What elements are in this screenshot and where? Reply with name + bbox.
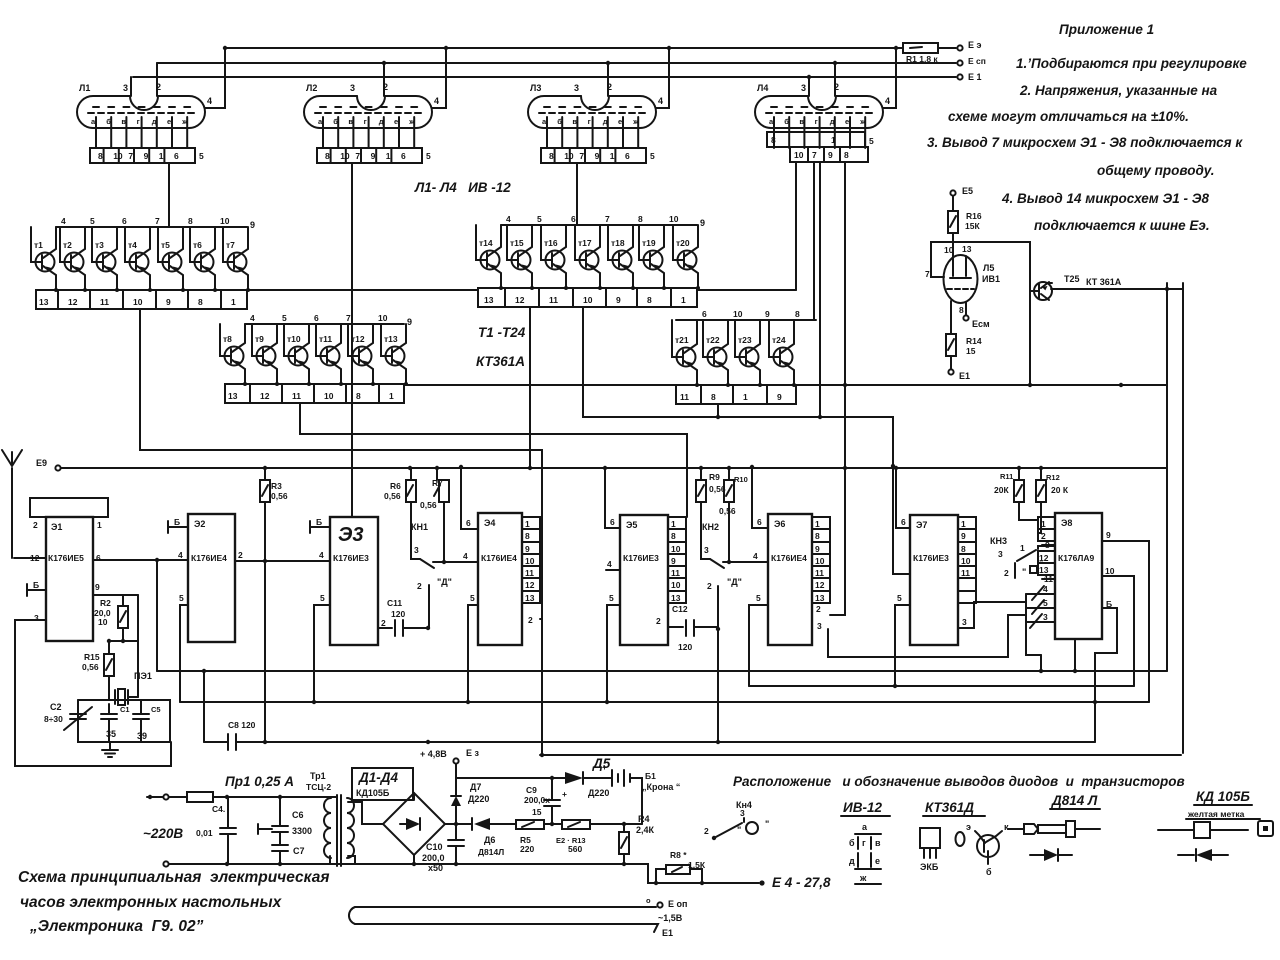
svg-text:10: 10	[1105, 566, 1115, 576]
svg-text:5: 5	[282, 313, 287, 323]
svg-text:9: 9	[95, 582, 100, 592]
bus y671	[157, 670, 1167, 672]
svg-text:1: 1	[231, 297, 236, 307]
svg-text:6: 6	[757, 517, 762, 527]
svg-text:т9: т9	[255, 334, 264, 344]
svg-text:Е 4 - 27,8: Е 4 - 27,8	[772, 875, 831, 890]
svg-text:1: 1	[97, 520, 102, 530]
svg-text:5: 5	[897, 593, 902, 603]
wire L4 pin3 riser	[808, 77, 810, 96]
svg-text:6: 6	[466, 518, 471, 528]
svg-text:4: 4	[607, 559, 612, 569]
svg-text:1: 1	[815, 519, 820, 529]
svg-text:3: 3	[998, 549, 1003, 559]
resistor R12	[1040, 468, 1042, 480]
svg-text:г: г	[137, 117, 140, 126]
wire L2 box down to Э3	[351, 163, 353, 517]
antenna	[2, 450, 22, 558]
svg-text:Е1: Е1	[662, 928, 673, 938]
bus y385	[404, 384, 676, 386]
wire Э8 pin6	[1095, 608, 1117, 742]
wire L4 pin4 riser	[883, 48, 896, 108]
ground tick pin 6 of Э3	[310, 521, 330, 533]
svg-text:3: 3	[817, 621, 822, 631]
tube Л5 IV-1	[944, 255, 978, 303]
svg-text:R10: R10	[734, 475, 748, 484]
svg-text:2: 2	[816, 604, 821, 614]
svg-text:8: 8	[98, 151, 103, 161]
svg-text:Б: Б	[1106, 599, 1112, 609]
transistor Т11	[316, 324, 343, 386]
transistor Т10	[284, 324, 311, 386]
transistor T25	[1034, 282, 1052, 300]
legend diode symbol right	[1030, 854, 1044, 856]
svg-text:4: 4	[434, 96, 439, 106]
svg-text:4: 4	[463, 551, 468, 561]
wire Э4 pin5	[468, 605, 478, 702]
svg-text:8: 8	[549, 151, 554, 161]
heater loop 1.5V	[355, 906, 656, 908]
svg-text:7: 7	[812, 150, 817, 160]
svg-text:9: 9	[1106, 530, 1111, 540]
svg-text:Д814Л: Д814Л	[478, 847, 504, 857]
transistor Т5	[158, 227, 185, 292]
terminal E1 low	[948, 369, 953, 374]
resistor R16	[952, 196, 954, 211]
svg-text:т22: т22	[706, 335, 720, 345]
wire L3 box to T14-T20 rail	[576, 163, 578, 225]
svg-text:5: 5	[537, 214, 542, 224]
svg-text:Е5: Е5	[962, 186, 973, 196]
svg-text:12: 12	[815, 580, 825, 590]
svg-text:Д220: Д220	[588, 788, 609, 798]
svg-text:5: 5	[199, 151, 204, 161]
svg-text:Л3: Л3	[530, 83, 541, 93]
svg-text:~220В: ~220В	[143, 826, 183, 841]
svg-text:4: 4	[506, 214, 511, 224]
svg-text:13: 13	[962, 244, 972, 254]
svg-text:С4.: С4.	[212, 804, 225, 814]
svg-text:2: 2	[417, 581, 422, 591]
wire L4 box riser b	[813, 162, 815, 320]
svg-text:7: 7	[605, 214, 610, 224]
ground tick pin 6 of Э2	[168, 521, 188, 533]
bus y290 between transistor blocks	[247, 289, 478, 291]
oscillator cap box	[78, 700, 170, 742]
svg-text:К176ИЕ3: К176ИЕ3	[333, 553, 369, 563]
svg-text:Э7: Э7	[916, 520, 927, 530]
svg-text:общему проводу.: общему проводу.	[1097, 163, 1215, 178]
svg-text:т11: т11	[319, 334, 332, 344]
svg-text:10: 10	[98, 617, 108, 627]
svg-text:10: 10	[525, 556, 535, 566]
wire bus1 Ea	[225, 47, 956, 49]
svg-text:3: 3	[962, 617, 967, 627]
svg-text:Е сп: Е сп	[968, 56, 986, 66]
svg-text:8: 8	[961, 544, 966, 554]
transistor Т15	[507, 225, 534, 290]
svg-text:10: 10	[671, 580, 681, 590]
wire Э6 pin5	[749, 605, 768, 686]
svg-text:ПЭ1: ПЭ1	[134, 671, 152, 681]
terminal E4	[759, 880, 764, 885]
svg-text:6: 6	[702, 309, 707, 319]
svg-text:в: в	[348, 117, 353, 126]
svg-text:8: 8	[638, 214, 643, 224]
svg-text:1: 1	[961, 519, 966, 529]
terminal mains bottom	[163, 861, 168, 866]
svg-text:Есм: Есм	[972, 319, 990, 329]
svg-text:э: э	[966, 822, 971, 832]
svg-text:1: 1	[671, 519, 676, 529]
svg-text:Д1-Д4: Д1-Д4	[358, 770, 399, 785]
transistor Т9	[252, 324, 279, 386]
svg-text:г: г	[815, 117, 818, 126]
svg-text:т2: т2	[63, 240, 72, 250]
resistor R8	[666, 865, 690, 874]
svg-text:120: 120	[678, 642, 692, 652]
svg-text:9: 9	[828, 150, 833, 160]
transistor Т23	[735, 320, 762, 387]
svg-text:~1,5В: ~1,5В	[658, 913, 683, 923]
svg-text:4: 4	[250, 313, 255, 323]
transistor Т20	[673, 225, 700, 290]
svg-text:5: 5	[470, 593, 475, 603]
svg-text:9: 9	[616, 295, 621, 305]
svg-text:д: д	[603, 117, 608, 126]
svg-text:Пр1 0,25 А: Пр1 0,25 А	[225, 774, 294, 789]
tube L4 pin boxes	[767, 132, 874, 162]
svg-text:2. Напряжения, указанные на: 2. Напряжения, указанные на	[1019, 83, 1218, 98]
svg-text:е: е	[845, 117, 849, 126]
svg-text:4. Вывод 14 микросхем Э1 - Э8: 4. Вывод 14 микросхем Э1 - Э8	[1001, 191, 1209, 206]
svg-text:Э2: Э2	[194, 519, 205, 529]
terminal Ecm	[957, 60, 962, 65]
svg-text:д: д	[849, 856, 855, 866]
svg-text:+: +	[602, 762, 607, 772]
svg-text:5: 5	[90, 216, 95, 226]
wire Э7 pin5	[895, 605, 910, 686]
wire block2 loop to Э5	[300, 403, 687, 517]
svg-text:3300: 3300	[292, 826, 312, 836]
svg-text:4: 4	[319, 550, 324, 560]
transistor block Т14-Т20	[476, 214, 705, 307]
IC Э2 К176ИЕ4	[188, 514, 235, 642]
wire Э1 pin5 loop	[15, 620, 171, 766]
svg-text:+ 4,8В: + 4,8В	[420, 749, 447, 759]
svg-text:1: 1	[743, 392, 748, 402]
svg-text:3: 3	[1043, 612, 1048, 622]
svg-text:9: 9	[407, 317, 412, 327]
wire bus2 Ecm	[157, 62, 956, 64]
svg-text:„Электроника Г9. 02”: „Электроника Г9. 02”	[29, 918, 204, 935]
svg-text:КД 105Б: КД 105Б	[1196, 789, 1250, 804]
wire L1 pin3 to bus3	[130, 77, 132, 96]
svg-text:ИВ1: ИВ1	[982, 274, 1000, 284]
wire Э1 pin6 to Э2 pin4	[93, 559, 188, 561]
wire Э4 pin6 to E9	[461, 467, 478, 529]
bridge rectifier	[383, 793, 445, 855]
transistor Т16	[541, 225, 568, 290]
resistor R14	[950, 301, 952, 334]
svg-text:т21: т21	[675, 335, 689, 345]
svg-text:9: 9	[700, 218, 705, 228]
resistor R15	[108, 641, 110, 654]
capacitor C8	[203, 671, 205, 742]
wire	[544, 823, 562, 825]
svg-text:3: 3	[574, 83, 579, 93]
svg-text:220: 220	[520, 844, 534, 854]
svg-text:6: 6	[96, 553, 101, 563]
svg-text:в: в	[572, 117, 577, 126]
Э8 lower-left pins	[1026, 593, 1055, 595]
svg-text:9: 9	[525, 544, 530, 554]
wire R10 to Э6 pin4	[723, 561, 768, 563]
svg-text:8: 8	[671, 531, 676, 541]
wire L4 pin2 riser	[834, 63, 836, 96]
svg-text:т7: т7	[226, 240, 235, 250]
resistor R11	[1018, 468, 1020, 480]
pin cell stack	[668, 517, 686, 603]
Э8 left cells	[1038, 517, 1055, 541]
svg-text:С2: С2	[50, 702, 62, 712]
transistor block Т8-Т13	[220, 313, 412, 403]
svg-text:10: 10	[583, 295, 593, 305]
svg-text:в: в	[799, 117, 804, 126]
svg-text:К176ИЕ4: К176ИЕ4	[191, 553, 227, 563]
wire KH1/R7 to Э4 pin4	[433, 561, 478, 563]
svg-text:С12: С12	[672, 604, 688, 614]
svg-text:7: 7	[155, 216, 160, 226]
svg-text:б: б	[849, 838, 855, 848]
svg-text:11: 11	[671, 568, 680, 578]
svg-text:8: 8	[647, 295, 652, 305]
wire riser x1183	[1182, 283, 1184, 753]
svg-text:2: 2	[607, 82, 612, 92]
svg-text:10: 10	[944, 245, 954, 255]
svg-text:9: 9	[144, 151, 149, 161]
svg-text:12: 12	[68, 297, 78, 307]
svg-text:т5: т5	[161, 240, 170, 250]
svg-text:6: 6	[314, 313, 319, 323]
svg-text:9: 9	[250, 220, 255, 230]
svg-text:R6: R6	[390, 481, 401, 491]
svg-text:11: 11	[961, 568, 970, 578]
bottom rail	[169, 863, 624, 865]
svg-text:Д814 Л: Д814 Л	[1051, 793, 1098, 808]
svg-text:0,56: 0,56	[719, 506, 736, 516]
svg-text:Л4: Л4	[757, 83, 768, 93]
svg-text:в: в	[121, 117, 126, 126]
svg-text:5: 5	[650, 151, 655, 161]
wire riser T25 right	[1166, 283, 1168, 671]
svg-text:13: 13	[228, 391, 238, 401]
svg-text:Б1: Б1	[645, 771, 656, 781]
svg-text:б: б	[106, 117, 111, 126]
svg-text:т3: т3	[95, 240, 104, 250]
transistor Т19	[639, 225, 666, 290]
svg-text:желтая метка: желтая метка	[1187, 809, 1245, 819]
svg-text:о: о	[646, 896, 651, 905]
svg-text:7: 7	[579, 151, 584, 161]
svg-text:Т1 -Т24: Т1 -Т24	[478, 325, 526, 340]
svg-text:2: 2	[707, 581, 712, 591]
wire block4 to y417	[717, 404, 719, 417]
wire Э1 pin12	[14, 557, 46, 559]
svg-text:т12: т12	[351, 334, 365, 344]
svg-text:11: 11	[292, 391, 301, 401]
resistor R5	[516, 820, 544, 829]
svg-text:10: 10	[220, 216, 230, 226]
vacuum tube Л4 (IV-12)	[755, 82, 890, 148]
svg-text:10: 10	[815, 556, 825, 566]
svg-text:2: 2	[383, 82, 388, 92]
svg-text:12: 12	[525, 580, 535, 590]
svg-text:Е1: Е1	[959, 371, 970, 381]
svg-text:КН1: КН1	[411, 522, 428, 532]
svg-text:г: г	[364, 117, 367, 126]
svg-text:Тр1: Тр1	[310, 771, 326, 781]
svg-text:5: 5	[179, 593, 184, 603]
legend diode symbol left	[1178, 854, 1194, 856]
svg-text:6: 6	[610, 517, 615, 527]
svg-text:8: 8	[711, 392, 716, 402]
svg-text:9: 9	[595, 151, 600, 161]
transistor Т1	[31, 227, 58, 292]
svg-text:13: 13	[671, 593, 681, 603]
svg-text:5: 5	[1043, 598, 1048, 608]
svg-text:9: 9	[961, 531, 966, 541]
svg-text:6: 6	[401, 151, 406, 161]
svg-text:9: 9	[765, 309, 770, 319]
svg-text:3: 3	[740, 808, 745, 818]
svg-text:т13: т13	[384, 334, 398, 344]
svg-text:т17: т17	[578, 238, 592, 248]
IC Э1 К176ИЕ5	[27, 498, 108, 641]
svg-text:ТСЦ-2: ТСЦ-2	[306, 782, 331, 792]
svg-text:R14: R14	[966, 336, 982, 346]
wire Л5 pin7 loop	[931, 242, 1030, 385]
resistor R6	[410, 468, 412, 480]
pin cell stack	[522, 517, 540, 603]
svg-text:13: 13	[1039, 565, 1049, 575]
svg-text:10: 10	[324, 391, 334, 401]
wire Э1 pin6 feedback drop	[156, 560, 158, 671]
bus y753	[540, 754, 1181, 756]
wire Э8 bottom drop	[1074, 639, 1076, 671]
svg-text:К176ИЕ5: К176ИЕ5	[48, 553, 84, 563]
svg-text:7: 7	[346, 313, 351, 323]
svg-text:5: 5	[426, 151, 431, 161]
svg-text:9: 9	[371, 151, 376, 161]
svg-text:е: е	[167, 117, 171, 126]
svg-text:1: 1	[1041, 519, 1046, 529]
svg-text:Л2: Л2	[306, 83, 317, 93]
svg-text:12: 12	[515, 295, 525, 305]
svg-text:ж: ж	[632, 117, 639, 126]
svg-text:6: 6	[625, 151, 630, 161]
svg-text:3. Вывод 7 микросхем Э1 - Э8 п: 3. Вывод 7 микросхем Э1 - Э8 подключаетс…	[927, 135, 1243, 150]
svg-text:Э3: Э3	[338, 524, 364, 546]
svg-text:9: 9	[671, 556, 676, 566]
svg-text:R9: R9	[709, 472, 720, 482]
wire L2 pin2 riser	[383, 63, 385, 96]
IC Э8 К176ЛА9	[1055, 513, 1102, 639]
vacuum tube Л2 (IV-12)	[304, 82, 439, 163]
capacitor C1	[101, 714, 117, 719]
svg-text:КН2: КН2	[702, 522, 719, 532]
terminal Ea	[957, 45, 962, 50]
svg-text:6: 6	[174, 151, 179, 161]
wire Л5 pin8 to Ecm	[965, 302, 967, 315]
svg-text:в: в	[875, 838, 881, 848]
wire Э6 pin3 to Э8	[828, 615, 1026, 657]
svg-text:ж: ж	[181, 117, 188, 126]
terminal mains top	[163, 794, 168, 799]
svg-text:200,0х: 200,0х	[524, 795, 550, 805]
svg-text:т24: т24	[772, 335, 786, 345]
svg-text:2,4К: 2,4К	[636, 825, 655, 835]
svg-text:2: 2	[1041, 531, 1046, 541]
transistor Т24	[769, 320, 796, 387]
IC Э6 К176ИЕ4	[768, 514, 812, 645]
svg-text:К176ИЕ4: К176ИЕ4	[481, 553, 517, 563]
svg-text:2: 2	[381, 618, 386, 628]
svg-text:С9: С9	[526, 785, 537, 795]
svg-text:2: 2	[1004, 568, 1009, 578]
svg-text:8: 8	[188, 216, 193, 226]
svg-text:Д7: Д7	[470, 782, 481, 792]
svg-text:8: 8	[356, 391, 361, 401]
svg-text:+: +	[562, 789, 567, 799]
svg-text:С8 120: С8 120	[228, 720, 256, 730]
svg-text:Э1: Э1	[51, 522, 62, 532]
wire R3 node drop	[264, 561, 266, 742]
IC Э3 К176ИЕ3	[330, 517, 378, 645]
svg-text:К176ЛА9: К176ЛА9	[1058, 553, 1094, 563]
svg-text:1: 1	[386, 151, 391, 161]
svg-text:КТ361А: КТ361А	[476, 354, 525, 369]
svg-text:8: 8	[795, 309, 800, 319]
svg-text:6: 6	[571, 214, 576, 224]
svg-text:3: 3	[350, 83, 355, 93]
svg-text:12: 12	[1039, 553, 1049, 563]
svg-text:2: 2	[33, 520, 38, 530]
bridge label box Д1-Д4	[352, 768, 413, 800]
svg-text:2: 2	[238, 550, 243, 560]
svg-text:Э4: Э4	[484, 518, 495, 528]
svg-text:„Крона “: „Крона “	[642, 782, 680, 792]
svg-text:11: 11	[680, 392, 689, 402]
svg-text:Е з: Е з	[466, 748, 480, 758]
svg-text:1: 1	[525, 519, 530, 529]
svg-text:R11: R11	[1000, 472, 1013, 481]
svg-text:к: к	[1004, 822, 1009, 832]
svg-text:10: 10	[378, 313, 388, 323]
transistor Т2	[60, 227, 87, 292]
svg-text:11: 11	[525, 568, 534, 578]
svg-text:Б: Б	[174, 517, 180, 527]
IC Э5 К176ИЕ3	[620, 515, 668, 645]
svg-text:4: 4	[178, 550, 183, 560]
svg-text:т19: т19	[642, 238, 656, 248]
svg-text:35: 35	[106, 729, 116, 739]
pin cell stack	[812, 517, 830, 603]
svg-text:4: 4	[207, 96, 212, 106]
svg-text:8: 8	[771, 135, 776, 145]
wire L4 box riser d to Э6 pin2	[830, 162, 845, 615]
wire to E4	[624, 864, 759, 883]
